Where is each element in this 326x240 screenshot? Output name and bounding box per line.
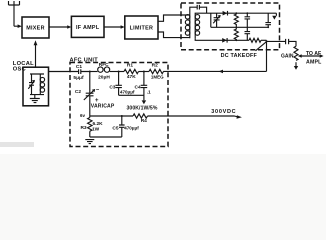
svg-text:6v: 6v bbox=[80, 113, 86, 118]
svg-text:300VDC: 300VDC bbox=[211, 109, 236, 115]
svg-text:470μμf: 470μμf bbox=[120, 89, 135, 94]
svg-text:.1: .1 bbox=[147, 89, 151, 95]
svg-text:C2: C2 bbox=[75, 89, 81, 95]
svg-text:R1: R1 bbox=[127, 62, 133, 68]
svg-text:DC TAKEOFF: DC TAKEOFF bbox=[221, 53, 258, 59]
svg-text:MIXER: MIXER bbox=[26, 25, 45, 31]
svg-text:R2: R2 bbox=[152, 62, 158, 68]
svg-text:AFC UNIT: AFC UNIT bbox=[70, 57, 99, 63]
svg-text:1W: 1W bbox=[92, 127, 100, 133]
svg-text:GAIN: GAIN bbox=[281, 53, 294, 59]
svg-text:5μμf: 5μμf bbox=[73, 75, 84, 81]
svg-text:470μμf: 470μμf bbox=[124, 126, 139, 131]
svg-text:C3: C3 bbox=[109, 84, 115, 90]
svg-text:R4: R4 bbox=[141, 118, 147, 124]
svg-text:TO AF: TO AF bbox=[306, 51, 321, 57]
svg-text:1MEG: 1MEG bbox=[151, 74, 164, 79]
svg-text:C5: C5 bbox=[112, 126, 118, 132]
svg-text:20μH: 20μH bbox=[98, 75, 110, 81]
svg-text:RFC: RFC bbox=[99, 62, 109, 68]
svg-text:IF AMPL: IF AMPL bbox=[76, 25, 100, 31]
svg-text:47K: 47K bbox=[127, 74, 136, 80]
svg-text:LIMITER: LIMITER bbox=[130, 25, 154, 31]
svg-text:C1: C1 bbox=[76, 64, 82, 70]
svg-text:300K/1W/5%: 300K/1W/5% bbox=[126, 105, 157, 111]
svg-text:C4: C4 bbox=[135, 84, 141, 90]
svg-text:AMPL: AMPL bbox=[306, 60, 322, 66]
svg-text:+: + bbox=[95, 98, 99, 104]
svg-text:OSC: OSC bbox=[13, 67, 26, 73]
svg-text:6.2K: 6.2K bbox=[93, 121, 104, 127]
svg-text:VARICAP: VARICAP bbox=[91, 104, 115, 110]
svg-text:R3: R3 bbox=[80, 125, 86, 131]
